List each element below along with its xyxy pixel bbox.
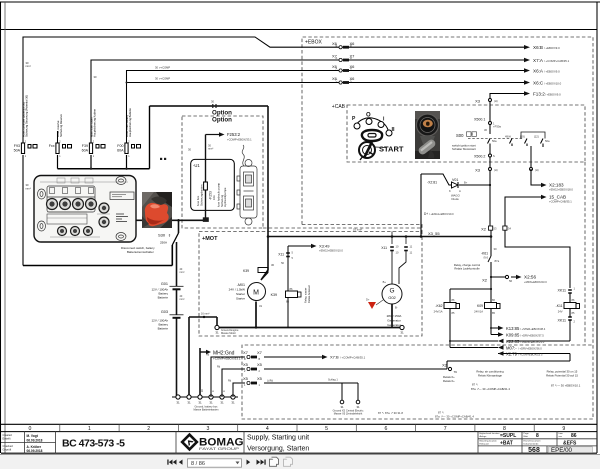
svg-text:8: 8 xyxy=(536,433,539,439)
svg-text:60A: 60A xyxy=(82,149,89,153)
svg-text:-K11: -K11 xyxy=(556,304,563,308)
svg-text:G02: G02 xyxy=(388,295,396,300)
svg-text:16 mm²: 16 mm² xyxy=(353,228,362,232)
svg-text:C: C xyxy=(336,79,338,83)
svg-text:X2:183: X2:183 xyxy=(549,183,564,188)
svg-text:(H): (H) xyxy=(494,99,498,103)
svg-text:X7: X7 xyxy=(243,350,249,355)
svg-text:Schalter Motorstart: Schalter Motorstart xyxy=(452,147,476,151)
svg-text:II: II xyxy=(392,127,396,133)
svg-text:K13:85: K13:85 xyxy=(506,326,520,331)
svg-text:F253:2: F253:2 xyxy=(227,132,241,137)
svg-text:31: 31 xyxy=(231,401,235,405)
svg-text:S30: S30 xyxy=(158,233,166,238)
svg-text:24V/1A: 24V/1A xyxy=(434,310,443,314)
svg-text:10A: 10A xyxy=(212,195,216,200)
svg-text:Dokumentende: Dokumentende xyxy=(524,442,540,445)
svg-text:&EFS: &EFS xyxy=(563,440,577,446)
svg-text:56: 56 xyxy=(509,279,513,283)
svg-text:15_CAB: 15_CAB xyxy=(549,195,566,200)
svg-text:[12]: [12] xyxy=(534,135,539,139)
svg-text:50A: 50A xyxy=(14,149,21,153)
svg-text:X11: X11 xyxy=(381,246,387,250)
svg-text:A: A xyxy=(350,56,352,60)
svg-text:87 ↖ 87a ↗ 30 31.8: 87 ↖ 87a ↗ 30 31.8 xyxy=(378,411,403,415)
svg-text:Einbauort: Einbauort xyxy=(480,442,490,445)
svg-text:Schlag 1: Schlag 1 xyxy=(328,379,338,382)
svg-text:87a ↗— 30 +COMP+CAB/41.4: 87a ↗— 30 +COMP+CAB/41.4 xyxy=(471,387,510,391)
svg-text:Relais Potential 30 auf 15: Relais Potential 30 auf 15 xyxy=(546,374,578,378)
svg-text:Blatt: Blatt xyxy=(524,435,529,438)
svg-text:Batterie: Batterie xyxy=(158,327,169,331)
svg-text:V01: V01 xyxy=(452,178,458,182)
svg-text:Sicherungskasten: Sicherungskasten xyxy=(199,184,203,206)
svg-text:B: B xyxy=(350,43,352,47)
svg-text:X2:56: X2:56 xyxy=(524,275,536,280)
svg-text:Masse Batteriekasten: Masse Batteriekasten xyxy=(194,408,219,412)
svg-text:G03: G03 xyxy=(161,310,168,314)
svg-text:X5: X5 xyxy=(257,362,263,367)
svg-text:5: 5 xyxy=(325,426,328,432)
svg-text:X6:B: X6:B xyxy=(533,45,543,50)
svg-text:30: 30 xyxy=(484,128,487,132)
svg-text:=SUPL: =SUPL xyxy=(500,433,516,439)
svg-text:30 ↗+COMP: 30 ↗+COMP xyxy=(155,66,170,70)
svg-text:-U1: -U1 xyxy=(193,163,200,168)
svg-text:06.09.2018: 06.09.2018 xyxy=(27,438,43,442)
svg-text:Lt/Rd: Lt/Rd xyxy=(267,380,274,383)
svg-text:X3:49: X3:49 xyxy=(319,244,330,249)
svg-text:+COMP+CAB/35.1: +COMP+CAB/35.1 xyxy=(549,200,572,204)
svg-text:B-: B- xyxy=(395,306,398,310)
svg-text:87a ↗— 30 +COMP+CAB/41.4: 87a ↗— 30 +COMP+CAB/41.4 xyxy=(435,415,474,419)
svg-text:+EBOX: +EBOX xyxy=(305,40,322,46)
svg-text:from: from xyxy=(559,432,564,435)
svg-text:X5: X5 xyxy=(243,376,249,381)
svg-text:(H): (H) xyxy=(494,168,498,172)
svg-text:(H): (H) xyxy=(535,168,539,172)
svg-text:50a: 50a xyxy=(545,139,550,143)
svg-text:/ +MDN+EBOX/23.0: / +MDN+EBOX/23.0 xyxy=(520,340,545,344)
svg-text:87 ↖— 30 +EBOX/10.1: 87 ↖— 30 +EBOX/10.1 xyxy=(551,384,581,388)
svg-text:BC 473-573 -5: BC 473-573 -5 xyxy=(62,438,125,450)
svg-text:Higher-level function: Higher-level function xyxy=(480,432,501,435)
svg-text:31: 31 xyxy=(259,304,263,308)
svg-text:-X2:81: -X2:81 xyxy=(427,181,437,185)
svg-text:D+: D+ xyxy=(366,298,370,302)
svg-text:/ +DRV+EBOX/37.5: / +DRV+EBOX/37.5 xyxy=(520,334,544,338)
svg-text:Checked: Checked xyxy=(3,444,14,448)
svg-text:X11: X11 xyxy=(278,253,284,257)
svg-text:Option: Option xyxy=(212,110,232,117)
svg-text:G: G xyxy=(389,288,394,295)
svg-text:86: 86 xyxy=(571,433,577,439)
svg-text:/ +EBOX/10.0: / +EBOX/10.0 xyxy=(544,82,562,86)
svg-text:30 ↗+COMP: 30 ↗+COMP xyxy=(155,77,170,81)
svg-text:mm²: mm² xyxy=(180,271,185,274)
svg-text:Hauptsicherung Batterie: Hauptsicherung Batterie xyxy=(128,108,132,137)
svg-text:G01: G01 xyxy=(161,282,168,286)
svg-text:O: O xyxy=(366,113,371,119)
svg-text:XK11: XK11 xyxy=(557,319,566,323)
svg-text:31: 31 xyxy=(340,405,344,409)
svg-text:1: 1 xyxy=(88,426,91,432)
svg-text:9: 9 xyxy=(562,426,565,432)
svg-text:X500.1: X500.1 xyxy=(474,118,485,122)
svg-text:A: A xyxy=(336,67,338,71)
svg-text:F13:2: F13:2 xyxy=(533,92,545,97)
svg-text:250A: 250A xyxy=(160,241,167,245)
svg-text:31: 31 xyxy=(198,401,202,405)
svg-text:Relais Anlasser: Relais Anlasser xyxy=(307,285,311,303)
svg-text:/ +EBOX/9.0: / +EBOX/9.0 xyxy=(544,70,560,74)
svg-text:/ +COMP+CAB/35.1: / +COMP+CAB/35.1 xyxy=(544,59,570,63)
svg-text:S: S xyxy=(493,154,495,158)
svg-text:A: A xyxy=(350,67,352,71)
svg-text:0: 0 xyxy=(29,426,32,432)
svg-text:K22:85: K22:85 xyxy=(506,339,520,344)
svg-text:Option: Option xyxy=(212,117,232,124)
svg-text:Created: Created xyxy=(3,433,13,437)
svg-text:K39: K39 xyxy=(271,293,277,297)
svg-text:+ENG2+EBOX/18.0: +ENG2+EBOX/18.0 xyxy=(549,188,573,192)
svg-text:X5: X5 xyxy=(243,362,249,367)
svg-text:16 mm²: 16 mm² xyxy=(201,313,210,316)
svg-text:31: 31 xyxy=(356,405,360,409)
svg-text:+COMP+EBOX/33.1: +COMP+EBOX/33.1 xyxy=(227,137,252,141)
svg-text:End of Document: End of Document xyxy=(524,440,541,443)
svg-text:30: 30 xyxy=(211,100,214,104)
svg-text:Sicherung Reserve: Sicherung Reserve xyxy=(59,114,63,137)
svg-text:M07:-: M07:- xyxy=(506,346,517,351)
svg-text:31: 31 xyxy=(220,401,224,405)
svg-text:87 ↖: 87 ↖ xyxy=(472,383,479,387)
svg-text:K09:85: K09:85 xyxy=(506,333,520,338)
svg-text:Starter: Starter xyxy=(236,297,245,301)
svg-text:-K62: -K62 xyxy=(435,304,442,308)
svg-text:X3: X3 xyxy=(475,168,481,173)
svg-text:Starter: Starter xyxy=(236,292,245,296)
svg-text:Batterie: Batterie xyxy=(158,296,169,300)
svg-text:mm²: mm² xyxy=(26,188,31,191)
svg-text:X500.2: X500.2 xyxy=(474,155,485,159)
svg-text:Diode: Diode xyxy=(452,197,460,201)
svg-text:+BAT: +BAT xyxy=(500,440,513,446)
svg-text:Masse X5 Zentralelektrik: Masse X5 Zentralelektrik xyxy=(334,412,363,416)
svg-text:31: 31 xyxy=(215,331,219,335)
svg-text:K39: K39 xyxy=(243,269,249,273)
svg-text:Fxx: Fxx xyxy=(49,144,55,148)
svg-text:Anlage: Anlage xyxy=(480,435,488,438)
svg-text:X7:B: X7:B xyxy=(330,355,339,360)
svg-text:7: 7 xyxy=(444,426,447,432)
svg-text:X6:C: X6:C xyxy=(533,81,544,86)
svg-text:/ +COMP+CAB/35.1: / +COMP+CAB/35.1 xyxy=(340,356,366,360)
svg-text:24V/1A: 24V/1A xyxy=(474,310,483,314)
svg-text:K: K xyxy=(449,189,451,193)
svg-text:EPE/00: EPE/00 xyxy=(551,447,573,454)
svg-text:mm²: mm² xyxy=(208,148,213,151)
svg-text:/9.6: /9.6 xyxy=(483,256,488,260)
svg-text:Masse Motor: Masse Motor xyxy=(221,331,236,335)
svg-text:+MDN+EBOX/23.0: +MDN+EBOX/23.0 xyxy=(524,280,547,284)
svg-text:Page: Page xyxy=(524,433,530,435)
svg-text:2: 2 xyxy=(147,426,150,432)
svg-text:/ +COM+EBOX/15.3: / +COM+EBOX/15.3 xyxy=(518,353,543,357)
svg-text:Hauptsicherung Kabine: Hauptsicherung Kabine xyxy=(93,109,97,137)
svg-text:/ +DRV+EBOX/36.0: / +DRV+EBOX/36.0 xyxy=(518,347,542,351)
svg-text:↧: ↧ xyxy=(168,234,171,238)
svg-text:/ +EBOX/9.0: / +EBOX/9.0 xyxy=(544,46,560,50)
svg-text:31: 31 xyxy=(209,401,213,405)
svg-text:Mounting location: Mounting location xyxy=(480,440,498,443)
svg-text:/ +STER+EBOX/38.4: / +STER+EBOX/38.4 xyxy=(520,327,546,331)
svg-text:X3_55: X3_55 xyxy=(428,231,440,236)
svg-text:49/H: 49/H xyxy=(505,135,511,139)
svg-text:A: A xyxy=(336,56,338,60)
svg-text:06.09.2018: 06.09.2018 xyxy=(27,449,43,453)
svg-text:X2: X2 xyxy=(482,278,488,283)
svg-text:XK11: XK11 xyxy=(557,289,566,293)
svg-text:30: 30 xyxy=(494,247,498,251)
svg-text:X3: X3 xyxy=(475,99,481,104)
svg-text:F00: F00 xyxy=(117,144,123,148)
svg-text:START: START xyxy=(379,145,404,154)
svg-text:B+: B+ xyxy=(383,280,387,284)
svg-text:50a: 50a xyxy=(492,139,497,143)
svg-text:F93: F93 xyxy=(14,144,20,148)
svg-text:K09: K09 xyxy=(477,304,483,308)
svg-text:X7:A: X7:A xyxy=(533,58,544,63)
svg-text:X6:A: X6:A xyxy=(533,69,544,74)
svg-text:Relais 0+: Relais 0+ xyxy=(443,379,455,383)
svg-text:A: A xyxy=(459,189,461,193)
svg-text:79: 79 xyxy=(454,370,458,374)
svg-text:[19]: [19] xyxy=(520,135,525,139)
svg-text:mm²: mm² xyxy=(26,65,31,68)
svg-text:-F253: -F253 xyxy=(209,191,213,200)
svg-text:Versorgung, Starten: Versorgung, Starten xyxy=(247,446,309,453)
svg-text:8: 8 xyxy=(503,426,506,432)
svg-text:4: 4 xyxy=(266,426,269,432)
svg-text:X2: X2 xyxy=(481,227,487,232)
svg-text:B+: B+ xyxy=(464,181,468,185)
svg-text:24V: 24V xyxy=(558,310,563,314)
svg-text:Geprüft: Geprüft xyxy=(3,448,12,452)
svg-text:-M01: -M01 xyxy=(237,283,245,287)
svg-text:FAYAT GROUP: FAYAT GROUP xyxy=(199,447,240,451)
svg-text:31: 31 xyxy=(187,401,191,405)
svg-text:Generator: Generator xyxy=(387,323,401,327)
svg-text:+MOT: +MOT xyxy=(202,236,218,242)
svg-text:31: 31 xyxy=(400,331,404,335)
svg-text:6: 6 xyxy=(384,426,387,432)
svg-text:Supply, Starting unit: Supply, Starting unit xyxy=(247,435,309,442)
svg-text:Relais Klimaanlage: Relais Klimaanlage xyxy=(478,374,502,378)
svg-text:D+ / +ENG1+EBOX/19.0: D+ / +ENG1+EBOX/19.0 xyxy=(424,212,454,216)
svg-text:Hydraulikpumpe: Hydraulikpumpe xyxy=(223,187,227,207)
svg-text:87a: 87a xyxy=(495,259,500,263)
svg-text:60A: 60A xyxy=(117,149,124,153)
svg-text:28V / 150A: 28V / 150A xyxy=(387,314,402,318)
svg-text:3: 3 xyxy=(207,426,210,432)
svg-text:Batterietrennschalter: Batterietrennschalter xyxy=(127,250,154,254)
svg-text:X5: X5 xyxy=(257,376,263,381)
svg-text:M: M xyxy=(253,290,259,297)
svg-text:X7: X7 xyxy=(257,350,263,355)
svg-text:/ +EBOX/9.0: / +EBOX/9.0 xyxy=(545,93,561,97)
svg-text:+ENG2+EBOX/10.0: +ENG2+EBOX/10.0 xyxy=(319,249,343,253)
svg-text:8 / 86: 8 / 86 xyxy=(191,461,205,467)
svg-text:Erstellt: Erstellt xyxy=(3,437,11,441)
svg-text:31: 31 xyxy=(176,401,180,405)
svg-text:Generator: Generator xyxy=(387,319,401,323)
svg-text:568: 568 xyxy=(528,447,540,454)
svg-text:F39: F39 xyxy=(82,144,88,148)
svg-text:Relais Ladekontrolle: Relais Ladekontrolle xyxy=(454,267,480,271)
svg-text:B: B xyxy=(336,43,338,47)
svg-text:X2:79: X2:79 xyxy=(506,352,518,357)
svg-text:30: 30 xyxy=(271,263,275,267)
svg-text:87 ↖: 87 ↖ xyxy=(438,411,445,415)
svg-text:S00: S00 xyxy=(456,133,464,138)
svg-text:Sicherung Steuerung (Potential: Sicherung Steuerung (Potential 30) xyxy=(25,95,29,137)
svg-text:+CAB: +CAB xyxy=(332,104,346,110)
svg-text:mm²: mm² xyxy=(180,298,185,301)
svg-text:C: C xyxy=(350,79,352,83)
svg-text:24V / 1,5kW: 24V / 1,5kW xyxy=(229,288,246,292)
